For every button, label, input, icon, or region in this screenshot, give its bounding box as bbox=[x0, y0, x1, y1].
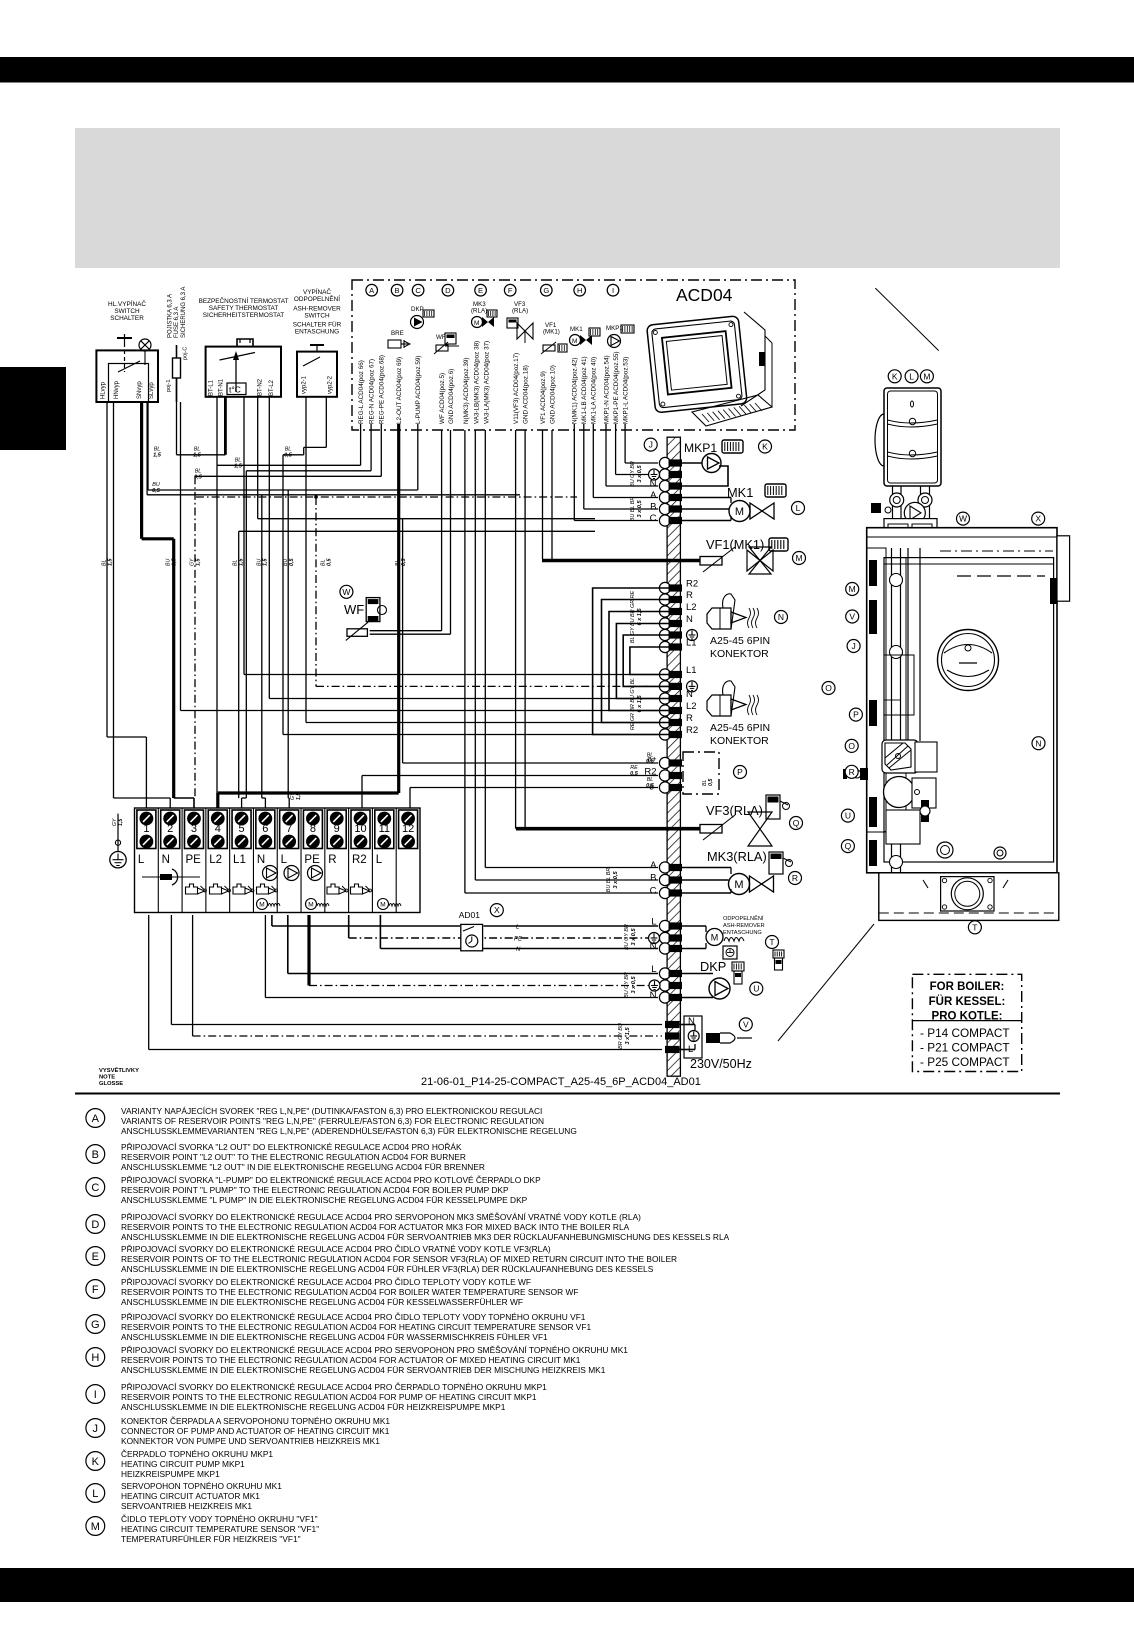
svg-text:ČIDLO TEPLOTY VODY TOPNÉHO OKR: ČIDLO TEPLOTY VODY TOPNÉHO OKRUHU "VF1" bbox=[121, 1514, 318, 1524]
svg-text:F: F bbox=[508, 286, 513, 295]
svg-text:Q: Q bbox=[845, 841, 852, 851]
svg-text:L: L bbox=[376, 854, 383, 866]
svg-text:GND ACD04(poz.6): GND ACD04(poz.6) bbox=[448, 369, 455, 424]
svg-text:M: M bbox=[259, 902, 264, 909]
svg-text:WF: WF bbox=[436, 334, 446, 341]
boiler bottom pipe bbox=[891, 844, 893, 872]
wire PE branch to g2 bbox=[315, 497, 317, 686]
svg-text:KONEKTOR: KONEKTOR bbox=[710, 735, 769, 747]
node J callout bbox=[644, 438, 657, 451]
svg-text:KONEKTOR ČERPADLA A SERVOPOHON: KONEKTOR ČERPADLA A SERVOPOHONU TOPNÉHO … bbox=[121, 1416, 390, 1426]
svg-text:BU BL BR: BU BL BR bbox=[630, 497, 636, 522]
svg-text:VYSVĚTLIVKY: VYSVĚTLIVKY bbox=[99, 1066, 139, 1074]
svg-text:ANSCHLUSSKLEMME IN DIE ELEKTRO: ANSCHLUSSKLEMME IN DIE ELEKTRONISCHE REG… bbox=[121, 1402, 506, 1412]
wire run L2 row g2 bbox=[181, 710, 659, 712]
drawing frame bottom line bbox=[75, 1093, 1060, 1095]
node Q callout boiler left bbox=[841, 840, 854, 853]
valve VF3 symbol bbox=[748, 812, 772, 829]
boiler right flange bbox=[1057, 536, 1070, 601]
svg-text:N(MK1) ACD04(poz.42): N(MK1) ACD04(poz.42) bbox=[572, 358, 579, 425]
svg-text:RESERVOIR POINTS OF TO THE ELE: RESERVOIR POINTS OF TO THE ELECTRONIC RE… bbox=[121, 1254, 677, 1264]
svg-text:B: B bbox=[92, 1149, 99, 1161]
svg-text:GLOSSE: GLOSSE bbox=[99, 1081, 123, 1087]
svg-text:- P21 COMPACT: - P21 COMPACT bbox=[920, 1041, 1010, 1055]
svg-text:ENTASCHUNG: ENTASCHUNG bbox=[295, 329, 339, 336]
boiler lower box bbox=[886, 810, 920, 844]
svg-text:VARIANTY NAPÁJECÍCH SVOREK "RE: VARIANTY NAPÁJECÍCH SVOREK "REG L,N,PE" … bbox=[121, 1106, 542, 1116]
wire thermostat BT-N1b thick bbox=[224, 397, 227, 455]
svg-text:1,5: 1,5 bbox=[118, 819, 124, 826]
boiler side bolts bbox=[921, 800, 929, 822]
wire thermostat BT-N1 bbox=[216, 397, 218, 465]
svg-text:1,5: 1,5 bbox=[234, 463, 243, 469]
wires MK1 rows bbox=[682, 497, 731, 499]
svg-text:VYPÍNAČ: VYPÍNAČ bbox=[303, 287, 331, 296]
svg-text:BU GY BR: BU GY BR bbox=[624, 972, 630, 998]
terminal 12 bbox=[399, 810, 418, 849]
node K callout boiler bbox=[888, 370, 901, 383]
svg-text:N: N bbox=[1035, 738, 1041, 748]
svg-text:0,5: 0,5 bbox=[630, 771, 639, 777]
node N callout bbox=[775, 611, 788, 624]
svg-text:Q: Q bbox=[793, 818, 800, 828]
controller 3D device drawing bbox=[647, 316, 748, 413]
node W callout boiler bbox=[957, 512, 970, 525]
mains plug symbol bbox=[706, 1033, 720, 1043]
node U callout boiler left bbox=[841, 809, 854, 822]
top black banner bbox=[0, 57, 1134, 83]
svg-text:U: U bbox=[753, 984, 759, 994]
wire t10 to R2 row bbox=[361, 776, 363, 809]
svg-text:MK3(RLA): MK3(RLA) bbox=[707, 849, 767, 864]
wire REG-L horizontal bbox=[360, 424, 362, 465]
svg-text:WF ACD04(poz.5): WF ACD04(poz.5) bbox=[439, 373, 446, 424]
svg-text:L: L bbox=[796, 503, 801, 513]
terminal 3 bbox=[184, 810, 203, 849]
svg-text:3 x 0,5: 3 x 0,5 bbox=[631, 976, 637, 994]
svg-text:N(MK3) ACD04(poz.39): N(MK3) ACD04(poz.39) bbox=[463, 358, 470, 425]
svg-text:H: H bbox=[577, 286, 582, 295]
svg-text:R: R bbox=[328, 854, 336, 866]
burner connector 1 bridge wires bbox=[630, 647, 682, 675]
wire VF3 stubs down bbox=[515, 430, 517, 825]
svg-text:A: A bbox=[650, 490, 657, 501]
node V callout bbox=[739, 1018, 752, 1031]
svg-text:N: N bbox=[778, 612, 784, 622]
boiler inner pipe left bbox=[891, 548, 893, 741]
svg-text:L1: L1 bbox=[233, 854, 246, 866]
icon valve t3 bbox=[186, 884, 198, 894]
svg-text:POJISTKA 6,3 A: POJISTKA 6,3 A bbox=[168, 294, 174, 338]
svg-text:O: O bbox=[848, 741, 855, 751]
terminal block X1 outline bbox=[135, 808, 421, 913]
svg-text:1,5: 1,5 bbox=[238, 558, 244, 566]
svg-text:M: M bbox=[735, 506, 744, 518]
svg-text:3 x 0,5: 3 x 0,5 bbox=[613, 871, 619, 889]
svg-text:6 x 1,5: 6 x 1,5 bbox=[637, 695, 643, 713]
wire ash switch vyp2-1 bbox=[305, 397, 307, 723]
svg-text:M: M bbox=[711, 933, 719, 943]
svg-text:1,5: 1,5 bbox=[262, 558, 268, 566]
wire thermostat pin tC bbox=[243, 397, 245, 675]
svg-text:BU GY BR: BU GY BR bbox=[630, 461, 636, 487]
svg-text:DKP: DKP bbox=[411, 306, 424, 313]
svg-text:L2: L2 bbox=[686, 701, 697, 712]
svg-text:ANSCHLUSSKLEMME IN DIE ELEKTRO: ANSCHLUSSKLEMME IN DIE ELEKTRONISCHE REG… bbox=[121, 1365, 606, 1375]
svg-text:TEMPERATURFÜHLER FÜR HEIZKREIS: TEMPERATURFÜHLER FÜR HEIZKREIS "VF1" bbox=[121, 1534, 301, 1544]
node M callout boiler bbox=[920, 370, 933, 383]
svg-text:K: K bbox=[892, 371, 898, 381]
svg-text:3: 3 bbox=[191, 823, 197, 835]
svg-text:W: W bbox=[342, 587, 350, 597]
svg-text:BT-N1: BT-N1 bbox=[219, 378, 225, 396]
wire MKP1-L bbox=[624, 424, 626, 463]
wire REG-PE horizontal bbox=[380, 424, 382, 476]
svg-text:R: R bbox=[686, 590, 693, 601]
legend entry E bbox=[86, 1244, 677, 1274]
svg-text:RESERVOIR POINT "L PUMP" TO TH: RESERVOIR POINT "L PUMP" TO THE ELECTRON… bbox=[121, 1185, 509, 1195]
lamp HL1 bbox=[139, 339, 151, 351]
mains plug box bbox=[684, 1016, 702, 1058]
svg-text:N: N bbox=[650, 990, 657, 1001]
sensor VF3 symbol bbox=[700, 825, 722, 834]
node H callout bbox=[574, 284, 586, 296]
svg-text:PRO KOTLE:: PRO KOTLE: bbox=[932, 1011, 1003, 1023]
svg-text:K: K bbox=[762, 442, 768, 452]
svg-text:PE: PE bbox=[304, 854, 320, 866]
svg-text:E: E bbox=[478, 286, 483, 295]
svg-text:C: C bbox=[91, 1182, 99, 1194]
terminal 8 bbox=[303, 810, 322, 849]
node F callout bbox=[504, 284, 516, 296]
svg-text:A25-45 6PIN: A25-45 6PIN bbox=[710, 635, 770, 647]
svg-text:(RLA): (RLA) bbox=[512, 308, 528, 315]
svg-text:ANSCHLUSSKLEMME IN DIE ELEKTRO: ANSCHLUSSKLEMME IN DIE ELEKTRONISCHE REG… bbox=[121, 1297, 523, 1307]
wire MK3 stubs down bbox=[484, 430, 486, 868]
terminal rows mains plug bbox=[665, 1021, 680, 1028]
ground symbol ash remover bbox=[649, 933, 660, 944]
terminal strip hatched panel bbox=[667, 437, 680, 1076]
node Q callout bbox=[790, 817, 803, 830]
wire PE g2 dash-dot bbox=[316, 685, 649, 687]
terminal 11 bbox=[375, 810, 394, 849]
boiler pump group bbox=[884, 388, 941, 486]
svg-text:SNvyp: SNvyp bbox=[137, 381, 143, 399]
svg-text:PŘIPOJOVACÍ SVORKA "L-PUMP" DO: PŘIPOJOVACÍ SVORKA "L-PUMP" DO ELEKTRONI… bbox=[121, 1175, 541, 1185]
svg-text:B: B bbox=[650, 873, 656, 884]
actuator head VF3 bbox=[766, 795, 780, 819]
switch S1 box bbox=[96, 350, 158, 402]
svg-text:8: 8 bbox=[310, 823, 316, 835]
svg-text:BU GY BR: BU GY BR bbox=[624, 924, 630, 950]
terminal rows pump DKP bbox=[659, 968, 670, 979]
wire switch HLvyp down bbox=[106, 402, 108, 737]
svg-text:U: U bbox=[845, 811, 851, 821]
svg-text:V: V bbox=[849, 612, 855, 622]
svg-text:9: 9 bbox=[334, 823, 340, 835]
burner icon 1 bbox=[707, 608, 731, 629]
terminal rows MKP1/MK1 connector bbox=[659, 457, 670, 468]
svg-text:J: J bbox=[93, 1423, 99, 1435]
svg-text:SLvyp: SLvyp bbox=[149, 382, 155, 399]
sensor VF1 symbol bbox=[700, 557, 722, 566]
svg-text:N: N bbox=[688, 1016, 695, 1027]
svg-text:H: H bbox=[91, 1352, 99, 1364]
svg-text:ASH-REMOVER: ASH-REMOVER bbox=[723, 923, 765, 929]
node X callout boiler bbox=[1032, 512, 1045, 525]
svg-text:HEATING CIRCUIT PUMP MKP1: HEATING CIRCUIT PUMP MKP1 bbox=[121, 1459, 245, 1469]
svg-text:V11(VF3) ACD04(poz.17): V11(VF3) ACD04(poz.17) bbox=[513, 353, 520, 424]
terminal 6 bbox=[256, 810, 275, 849]
legend entry H bbox=[86, 1345, 628, 1375]
svg-text:SCHALTER: SCHALTER bbox=[110, 315, 144, 322]
ash remover gear box bbox=[723, 946, 737, 959]
wire L2-OUT thick to block bbox=[397, 424, 400, 793]
node P callout bbox=[734, 766, 747, 779]
node R callout boiler left bbox=[845, 765, 858, 778]
svg-text:MKP1-N ACD04(poz.54): MKP1-N ACD04(poz.54) bbox=[603, 355, 610, 424]
lamp symbol under terminals 1-2 bbox=[142, 876, 200, 878]
boiler door circle bbox=[938, 630, 999, 691]
motor valve MK1 bbox=[729, 501, 750, 522]
terminal 4 bbox=[208, 810, 227, 849]
terminal 1 bbox=[137, 810, 156, 849]
wire N MK1 bbox=[573, 424, 575, 521]
boiler manifold with pump bbox=[904, 502, 925, 523]
svg-text:VARIANTS OF RESERVOIR POINTS ": VARIANTS OF RESERVOIR POINTS "REG L,N,PE… bbox=[121, 1116, 544, 1126]
wire t12 to b- row bbox=[409, 788, 411, 809]
svg-text:AD01: AD01 bbox=[459, 910, 481, 920]
boiler pump assembly bbox=[882, 740, 918, 773]
svg-text:WF: WF bbox=[344, 602, 364, 617]
connector icon DKP bbox=[732, 962, 744, 971]
svg-text:0,5: 0,5 bbox=[152, 488, 161, 494]
svg-text:3 x 0,5: 3 x 0,5 bbox=[637, 465, 643, 483]
svg-text:F: F bbox=[92, 1284, 99, 1296]
wire run g2 R bbox=[306, 722, 658, 724]
icon pump t7 bbox=[284, 866, 299, 881]
svg-text:P: P bbox=[737, 767, 743, 777]
svg-text:PŘIPOJOVACÍ SVORKA "L2 OUT" DO: PŘIPOJOVACÍ SVORKA "L2 OUT" DO ELEKTRONI… bbox=[121, 1142, 462, 1152]
switch S2 box bbox=[297, 352, 337, 397]
wire ash to burner R2 row bbox=[282, 455, 284, 735]
svg-text:BEZPEČNOSTNÍ TERMOSTAT: BEZPEČNOSTNÍ TERMOSTAT bbox=[199, 296, 289, 305]
node P callout boiler left bbox=[849, 708, 862, 721]
svg-text:CONNECTOR OF PUMP AND ACTUATOR: CONNECTOR OF PUMP AND ACTUATOR OF HEATIN… bbox=[121, 1426, 390, 1436]
svg-text:RESERVOIR POINTS TO THE ELECTR: RESERVOIR POINTS TO THE ELECTRONIC REGUL… bbox=[121, 1222, 630, 1232]
wire PE vertical dash-dot bbox=[194, 476, 196, 798]
svg-text:BT-N2: BT-N2 bbox=[258, 378, 264, 396]
svg-text:0,5: 0,5 bbox=[401, 558, 407, 566]
boiler burner flange plate bbox=[941, 877, 994, 911]
wire run y531.3 bbox=[239, 530, 595, 532]
svg-text:FOR BOILER:: FOR BOILER: bbox=[930, 981, 1005, 993]
svg-text:230V/50Hz: 230V/50Hz bbox=[690, 1057, 752, 1071]
wire REG-N vertical to block bbox=[245, 471, 247, 798]
svg-text:T: T bbox=[769, 937, 774, 947]
svg-text:D: D bbox=[445, 286, 451, 295]
boiler pipes bbox=[892, 486, 894, 530]
svg-text:L1: L1 bbox=[686, 665, 697, 676]
icon motor t8 bbox=[306, 899, 317, 910]
node L callout boiler bbox=[905, 370, 918, 383]
svg-text:BT-L2: BT-L2 bbox=[269, 379, 275, 396]
svg-text:X: X bbox=[494, 905, 500, 915]
svg-text:A25-45 6PIN: A25-45 6PIN bbox=[710, 722, 770, 734]
svg-text:M: M bbox=[474, 320, 479, 327]
icon valve t6 bbox=[257, 884, 269, 894]
icon motor t11 bbox=[378, 899, 389, 910]
svg-text:SCHALTER FÜR: SCHALTER FÜR bbox=[293, 321, 342, 329]
wire switch SLvyp to L-PUMP bbox=[147, 402, 149, 490]
svg-text:1,5: 1,5 bbox=[172, 558, 178, 566]
svg-text:R2: R2 bbox=[352, 854, 367, 866]
wires DKP bbox=[682, 973, 713, 975]
legend entry B bbox=[86, 1142, 485, 1172]
svg-text:PŘIPOJOVACÍ SVORKY DO ELEKTRON: PŘIPOJOVACÍ SVORKY DO ELEKTRONICKÉ REGUL… bbox=[121, 1212, 641, 1222]
svg-text:L: L bbox=[281, 854, 288, 866]
connector icon below T bbox=[773, 950, 784, 958]
wires below block to plug bbox=[148, 915, 150, 1050]
boiler body outline bbox=[867, 528, 1057, 873]
svg-text:B: B bbox=[650, 502, 656, 513]
wire thermostat BT-L2 to g2 N bbox=[268, 397, 270, 699]
svg-text:I: I bbox=[612, 286, 614, 295]
svg-text:M: M bbox=[849, 584, 856, 594]
svg-text:MKP1-L ACD04(poz.53): MKP1-L ACD04(poz.53) bbox=[623, 357, 630, 424]
wire WF pair bbox=[441, 430, 443, 631]
connector icon MKP1 bbox=[722, 440, 743, 453]
thermostat BT box bbox=[206, 347, 281, 397]
svg-text:SERVOPOHON TOPNÉHO OKRUHU MK1: SERVOPOHON TOPNÉHO OKRUHU MK1 bbox=[121, 1481, 282, 1491]
svg-text:N: N bbox=[686, 614, 693, 625]
boiler flue pipe bbox=[907, 548, 909, 741]
svg-text:ANSCHLUSSKLEMMEVARIANTEN "REG: ANSCHLUSSKLEMMEVARIANTEN "REG L,N,PE" (A… bbox=[121, 1126, 577, 1136]
svg-text:RESERVOIR POINTS TO THE ELECTR: RESERVOIR POINTS TO THE ELECTRONIC REGUL… bbox=[121, 1392, 537, 1402]
ground symbol left of block bbox=[117, 814, 119, 852]
header grey panel bbox=[75, 128, 1060, 268]
svg-text:HEIZKREISPUMPE MKP1: HEIZKREISPUMPE MKP1 bbox=[121, 1469, 220, 1479]
boiler left column bbox=[867, 548, 886, 832]
burner icon 2 bbox=[707, 695, 731, 716]
sensor WF connector bbox=[366, 598, 380, 622]
svg-text:1,5: 1,5 bbox=[153, 453, 162, 459]
svg-text:N: N bbox=[162, 854, 170, 866]
svg-text:10: 10 bbox=[354, 823, 366, 835]
svg-text:M: M bbox=[795, 553, 802, 563]
wire vertical BL1,5 t5 bbox=[238, 531, 240, 798]
svg-text:ODPOPELNĚNÍ: ODPOPELNĚNÍ bbox=[294, 294, 340, 303]
svg-text:BL GY BU BR GR RE: BL GY BU BR GR RE bbox=[630, 590, 636, 643]
svg-text:(RLA): (RLA) bbox=[471, 308, 487, 315]
boiler small panel bbox=[884, 655, 914, 715]
svg-text:HEATING CIRCUIT TEMPERATURE SE: HEATING CIRCUIT TEMPERATURE SENSOR "VF1" bbox=[121, 1524, 319, 1534]
wire switch SNvyp thick bbox=[140, 402, 143, 539]
svg-text:0,5: 0,5 bbox=[194, 474, 203, 480]
wires around AD01 bbox=[271, 915, 273, 926]
svg-text:G: G bbox=[91, 1319, 100, 1331]
legend entry F bbox=[86, 1277, 579, 1307]
node D callout bbox=[442, 284, 454, 296]
flue sensor dashed box P bbox=[683, 752, 719, 794]
node N callout boiler bbox=[1032, 737, 1045, 750]
wire switch HNvyp down bbox=[113, 402, 115, 798]
svg-text:SAFETY THERMOSTAT: SAFETY THERMOSTAT bbox=[209, 305, 279, 312]
op-amp U1 regulator box ACD04 dash-dot border bbox=[352, 280, 795, 430]
svg-text:M: M bbox=[572, 338, 577, 345]
svg-text:L: L bbox=[516, 925, 519, 931]
node U callout bbox=[750, 982, 763, 995]
svg-text:RE GR BR BU GY BL: RE GR BR BU GY BL bbox=[630, 678, 636, 730]
terminal rows burner connector 1 bbox=[659, 582, 670, 593]
ash remover motor M bbox=[706, 929, 723, 946]
wire MKP1-PE bbox=[615, 424, 617, 475]
svg-text:L2: L2 bbox=[686, 602, 697, 613]
svg-text:HNvyp: HNvyp bbox=[114, 380, 120, 399]
svg-text:ANSCHLUSSKLEMME IN DIE ELEKTRO: ANSCHLUSSKLEMME IN DIE ELEKTRONISCHE REG… bbox=[121, 1232, 730, 1242]
wire run g2 L1 bbox=[244, 674, 658, 676]
svg-text:L2-OUT ACD04(poz 69): L2-OUT ACD04(poz 69) bbox=[396, 357, 403, 424]
svg-text:vyp2-2: vyp2-2 bbox=[328, 375, 334, 394]
wire run y518.7 from BT-N2 bbox=[257, 397, 259, 519]
node I callout bbox=[607, 284, 619, 296]
svg-text:4: 4 bbox=[215, 823, 221, 835]
node T callout boiler bbox=[968, 921, 981, 934]
legend entry M bbox=[86, 1514, 319, 1544]
node E callout bbox=[475, 284, 487, 296]
svg-text:N: N bbox=[257, 854, 265, 866]
ground symbol plug bbox=[688, 1031, 699, 1042]
svg-text:M: M bbox=[380, 902, 385, 909]
svg-text:R: R bbox=[686, 713, 693, 724]
svg-text:VA3-LB(MK3) ACD04(poz 38): VA3-LB(MK3) ACD04(poz 38) bbox=[473, 341, 480, 424]
legend entry A bbox=[86, 1106, 577, 1136]
node B callout bbox=[391, 284, 403, 296]
svg-text:MKP1-PE ACD04(poz.55): MKP1-PE ACD04(poz.55) bbox=[613, 352, 620, 424]
sensor VF1 shielded wire bbox=[542, 559, 700, 563]
wire MKP1 pump to rows bbox=[682, 462, 702, 464]
wires ash motor bbox=[682, 925, 706, 927]
svg-text:HL.VYPÍNAČ: HL.VYPÍNAČ bbox=[108, 299, 146, 308]
wire VF1 stubs down bbox=[542, 430, 544, 559]
wires MK3 rows bbox=[682, 867, 731, 869]
svg-text:L: L bbox=[138, 854, 145, 866]
svg-text:T: T bbox=[972, 922, 977, 932]
ACD04 terminal pin labels bbox=[358, 341, 630, 424]
icon valve t5 bbox=[233, 884, 245, 894]
svg-text:BRE: BRE bbox=[391, 330, 404, 337]
svg-text:0,5: 0,5 bbox=[284, 453, 293, 459]
svg-text:(MK1): (MK1) bbox=[543, 329, 560, 336]
svg-text:vyp2-1: vyp2-1 bbox=[302, 375, 308, 394]
svg-text:RESERVOIR POINTS TO THE ELECTR: RESERVOIR POINTS TO THE ELECTRONIC REGUL… bbox=[121, 1287, 578, 1297]
legend entry K bbox=[86, 1449, 274, 1479]
svg-text:R: R bbox=[792, 873, 798, 883]
svg-text:SICHERHEITSTERMOSTAT: SICHERHEITSTERMOSTAT bbox=[203, 312, 285, 319]
icon valve t4 bbox=[210, 884, 222, 894]
node W callout bbox=[340, 585, 353, 598]
svg-text:O: O bbox=[825, 683, 832, 693]
node M callout boiler left bbox=[846, 583, 859, 596]
svg-text:HLvyp: HLvyp bbox=[101, 381, 107, 399]
svg-text:W: W bbox=[959, 514, 967, 524]
svg-text:KONEKTOR: KONEKTOR bbox=[710, 648, 769, 660]
leader line top bbox=[875, 288, 938, 351]
svg-text:M: M bbox=[91, 1521, 100, 1533]
legend entry I bbox=[86, 1382, 547, 1412]
actuator head MK3 bbox=[769, 852, 783, 874]
svg-text:REG-L ACD04(poz 66): REG-L ACD04(poz 66) bbox=[358, 360, 365, 424]
